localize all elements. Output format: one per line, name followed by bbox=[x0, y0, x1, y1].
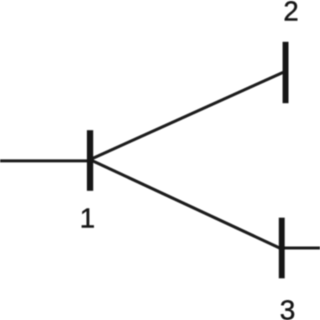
bus 1 bbox=[87, 130, 93, 191]
svg-text:3: 3 bbox=[280, 294, 296, 320]
wire: line bus 1 to bus 2 bbox=[90, 71, 286, 159]
wire: line bus 1 to bus 3 bbox=[90, 160, 282, 250]
svg-text:1: 1 bbox=[80, 202, 95, 233]
bus 3 bbox=[279, 218, 285, 279]
wire: feeder into bus 1 bbox=[0, 159, 90, 162]
bus 2 bbox=[283, 42, 289, 103]
wire: line out of bus 3 to right edge bbox=[282, 247, 320, 250]
svg-text:2: 2 bbox=[283, 0, 298, 26]
